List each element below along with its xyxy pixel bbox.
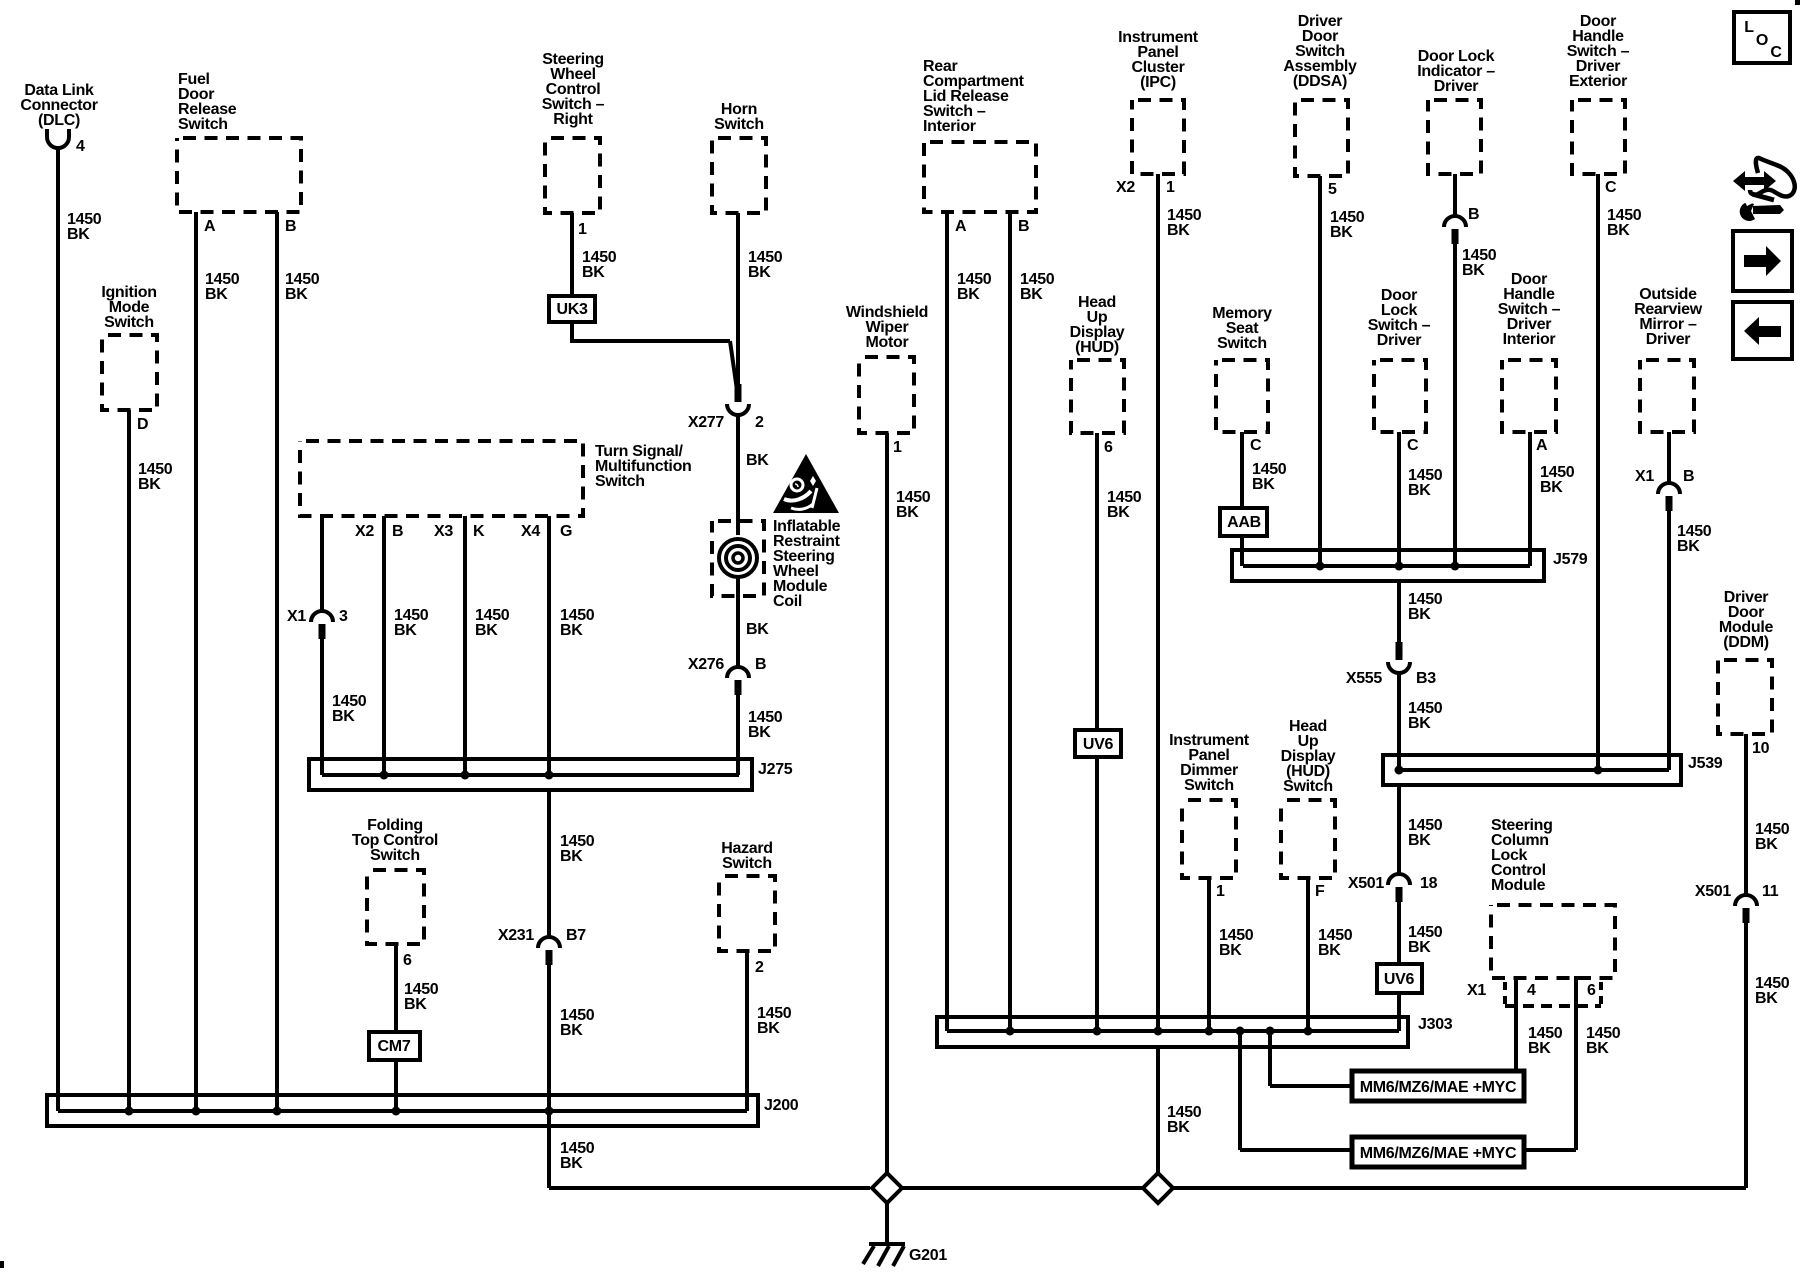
wire: 1450 BK from Folding Top Control Switch pin 6 to CM7 <box>396 944 439 1032</box>
icon: SIR caution triangle <box>773 454 839 513</box>
wire: 1450 BK from Horn Switch to connector X277 <box>738 213 783 386</box>
connector: X231 pin B7 <box>498 927 586 965</box>
svg-text:X1: X1 <box>287 608 306 625</box>
block: MM6/MZ6/MAE +MYC (upper) <box>1352 1071 1524 1101</box>
wire: ground rail between diamond junctions <box>903 1186 1142 1190</box>
svg-text:Interior: Interior <box>1503 331 1556 348</box>
wire: 1450 BK from Steering Wheel Control Switch pin 1 to UK3 <box>572 213 617 296</box>
svg-text:Driver: Driver <box>1434 78 1479 95</box>
svg-text:X277: X277 <box>688 414 725 431</box>
svg-text:J200: J200 <box>764 1097 799 1114</box>
svg-text:Right: Right <box>553 111 593 128</box>
connector: in-line pin B (Door Lock Indicator) <box>1444 206 1479 244</box>
connector: DLC pin 4 half-circle <box>47 129 85 155</box>
svg-text:BK: BK <box>332 708 355 725</box>
wire: from diamond junction down to ground G201 <box>885 1204 889 1244</box>
wire: 1450 BK from IPC connector X2 pin 1 to splice J303 <box>1116 174 1202 1031</box>
wire: 1450 BK from Windshield Wiper Motor pin 1 to ground junction <box>887 433 931 1172</box>
svg-text:6: 6 <box>403 952 412 969</box>
svg-text:X555: X555 <box>1346 670 1383 687</box>
svg-text:UK3: UK3 <box>556 301 588 318</box>
icon: service information arrows and wrench <box>1733 158 1795 221</box>
svg-text:B: B <box>1468 206 1479 223</box>
component: Folding Top Control Switch <box>352 817 438 944</box>
svg-text:MM6/MZ6/MAE +MYC: MM6/MZ6/MAE +MYC <box>1360 1079 1517 1096</box>
svg-text:Coil: Coil <box>773 593 802 610</box>
option code UK3 <box>549 296 595 322</box>
svg-text:BK: BK <box>1755 836 1778 853</box>
svg-text:BK: BK <box>1540 479 1563 496</box>
svg-text:K: K <box>473 523 485 540</box>
wire: 1450 BK from Turn Signal Switch X3 pin K to splice J275 <box>434 516 510 775</box>
component: Driver Door Module (DDM) <box>1718 589 1773 734</box>
svg-text:(DLC): (DLC) <box>38 112 80 129</box>
svg-text:BK: BK <box>1408 715 1431 732</box>
svg-text:AAB: AAB <box>1227 514 1261 531</box>
component: Instrument Panel Dimmer Switch <box>1169 732 1250 878</box>
svg-text:1: 1 <box>1166 179 1175 196</box>
wire: BK from coil to connector X276 <box>738 577 769 667</box>
wire: 1450 BK from DLC pin 4 to splice J200 <box>58 148 102 1111</box>
svg-text:4: 4 <box>1527 982 1536 999</box>
svg-text:G: G <box>560 523 572 540</box>
svg-text:C: C <box>1605 179 1617 196</box>
wire: 1450 BK from Ignition Mode Switch pin D to splice J200 <box>129 410 173 1111</box>
svg-text:O: O <box>1756 32 1768 49</box>
svg-text:BK: BK <box>205 286 228 303</box>
svg-text:X276: X276 <box>688 656 725 673</box>
connector: X1 pin B (mirror) <box>1635 468 1694 511</box>
svg-text:BK: BK <box>394 622 417 639</box>
wire: 1450 BK from Fuel Door Release Switch pin B to splice J200 <box>277 212 320 1111</box>
svg-text:Switch: Switch <box>370 847 420 864</box>
svg-text:B7: B7 <box>566 927 586 944</box>
svg-text:BK: BK <box>1408 939 1431 956</box>
svg-text:Switch: Switch <box>1217 335 1267 352</box>
component: Door Lock Switch - Driver <box>1368 287 1431 432</box>
svg-text:6: 6 <box>1104 439 1113 456</box>
connector: X555 pin B3 <box>1346 642 1436 687</box>
mark: page edge tick bottom left <box>0 1261 4 1268</box>
svg-text:J579: J579 <box>1553 551 1588 568</box>
svg-text:BK: BK <box>746 452 769 469</box>
svg-text:BK: BK <box>1252 476 1275 493</box>
svg-text:CM7: CM7 <box>378 1038 411 1055</box>
svg-text:(HUD): (HUD) <box>1075 339 1119 356</box>
wire: 1450 BK from splice J579 to connector X555 <box>1399 581 1443 644</box>
svg-text:4: 4 <box>76 138 85 155</box>
svg-text:C: C <box>1770 44 1782 61</box>
component: Rear Compartment Lid Release Switch - Interior <box>923 58 1036 212</box>
svg-text:BK: BK <box>1219 942 1242 959</box>
svg-text:BK: BK <box>560 622 583 639</box>
svg-text:BK: BK <box>1020 286 1043 303</box>
wire: from Door Lock Indicator to connector B <box>1453 174 1457 216</box>
svg-text:BK: BK <box>1107 504 1130 521</box>
svg-text:BK: BK <box>1607 222 1630 239</box>
wire: from UV6 to splice J303 <box>1397 993 1401 1031</box>
svg-text:X4: X4 <box>521 523 540 540</box>
svg-text:X501: X501 <box>1348 875 1385 892</box>
option code UV6 (HUD wire) <box>1075 730 1121 757</box>
svg-text:3: 3 <box>339 608 348 625</box>
splice pack J539 <box>1383 755 1723 785</box>
wire: 1450 BK from X1 pin 3 to splice J275 <box>322 639 367 775</box>
component: Driver Door Switch Assembly (DDSA) <box>1283 13 1357 176</box>
svg-text:Switch: Switch <box>1283 778 1333 795</box>
wire: 1450 BK from X501 pin 18 to UV6 <box>1399 902 1443 964</box>
component: Data Link Connector (DLC) <box>20 82 97 129</box>
svg-text:BK: BK <box>1408 482 1431 499</box>
svg-text:A: A <box>1536 437 1548 454</box>
wire: from Turn Signal Switch X1 pin 3 toward J275 (upper segment) <box>320 516 324 611</box>
svg-text:C: C <box>1407 437 1419 454</box>
component: Door Handle Switch - Driver Exterior <box>1567 13 1630 174</box>
wire: 1450 BK from HUD pin 6 to UV6 <box>1097 433 1142 730</box>
wire: 1450 BK from X276 to splice J275 <box>738 695 783 775</box>
svg-text:L: L <box>1744 19 1754 36</box>
junction: diamond splice at ground rail (right) <box>1143 1173 1173 1203</box>
component: Instrument Panel Cluster (IPC) <box>1118 29 1199 174</box>
svg-text:BK: BK <box>560 848 583 865</box>
svg-text:BK: BK <box>582 264 605 281</box>
svg-text:X3: X3 <box>434 523 453 540</box>
connector: X276 pin B <box>688 656 766 695</box>
wire: 1450 BK from Door Handle Switch Interior pin A to splice J579 <box>1530 432 1575 566</box>
wire: from splice J303 to MM6/MZ6/MAE +MYC block (upper) <box>1270 1031 1352 1086</box>
wire: 1450 BK from Steering Column Lock Control Module X1 pin 4 to MM6 block <box>1516 976 1563 1071</box>
component: Horn Switch <box>712 101 766 213</box>
svg-text:Module: Module <box>1491 877 1546 894</box>
svg-text:2: 2 <box>755 959 764 976</box>
svg-text:BK: BK <box>957 286 980 303</box>
svg-text:X1: X1 <box>1635 468 1654 485</box>
component: Turn Signal/Multifunction Switch <box>300 441 692 516</box>
svg-text:BK: BK <box>746 621 769 638</box>
svg-text:MM6/MZ6/MAE +MYC: MM6/MZ6/MAE +MYC <box>1360 1145 1517 1162</box>
component: Windshield Wiper Motor <box>846 304 928 433</box>
svg-text:BK: BK <box>1408 606 1431 623</box>
wire: from UK3 down, right and diagonal to connector X277 <box>570 322 737 390</box>
svg-text:11: 11 <box>1762 883 1779 900</box>
mark: page edge tick top right <box>1795 0 1800 5</box>
wire: 1450 BK from Hazard Switch pin 2 to splice J200 <box>747 951 792 1111</box>
option code AAB <box>1220 508 1267 536</box>
component: Steering Column Lock Control Module <box>1491 817 1615 978</box>
svg-text:(DDSA): (DDSA) <box>1293 73 1347 90</box>
wire: 1450 BK from Rear Compartment Lid Release Switch pin A to splice J303 <box>947 212 992 1031</box>
symbol: clockspring coil <box>715 535 761 581</box>
svg-text:BK: BK <box>1755 990 1778 1007</box>
junction: diamond splice at ground rail (left) <box>872 1173 902 1203</box>
icon: forward arrow box <box>1733 231 1792 291</box>
component: Outside Rearview Mirror - Driver <box>1634 286 1703 432</box>
component: Inflatable Restraint Steering Wheel Module Coil <box>712 518 841 610</box>
wire: from CM7 to splice J200 <box>394 1060 398 1111</box>
svg-text:6: 6 <box>1587 982 1596 999</box>
svg-text:1: 1 <box>893 439 902 456</box>
connector: X501 pin 11 <box>1695 883 1779 923</box>
svg-text:UV6: UV6 <box>1083 736 1114 753</box>
svg-text:D: D <box>137 416 148 433</box>
svg-text:10: 10 <box>1752 740 1770 757</box>
wire: 1450 BK from Fuel Door Release Switch pin A to splice J200 <box>196 212 240 1111</box>
svg-text:BK: BK <box>560 1155 583 1172</box>
svg-text:BK: BK <box>67 226 90 243</box>
svg-text:Interior: Interior <box>923 118 976 135</box>
svg-text:G201: G201 <box>909 1247 947 1264</box>
svg-text:B: B <box>755 656 766 673</box>
wire: 1450 BK from splice J303 to diamond junction (right) <box>1158 1047 1202 1172</box>
ground G201 <box>863 1244 947 1266</box>
svg-text:BK: BK <box>560 1022 583 1039</box>
icon: LOC legend box <box>1734 12 1790 63</box>
connector row X1 of Steering Column Lock Control Module <box>1467 982 1601 1006</box>
component: Door Lock Indicator - Driver <box>1417 48 1495 174</box>
block: MM6/MZ6/MAE +MYC (lower) <box>1352 1137 1524 1167</box>
wire: from Outside Rearview Mirror to connector X1 pin B <box>1667 432 1671 483</box>
svg-text:A: A <box>955 218 967 235</box>
component: Steering Wheel Control Switch - Right <box>542 51 605 213</box>
svg-text:X501: X501 <box>1695 883 1732 900</box>
svg-text:1: 1 <box>578 221 587 238</box>
wire: 1450 BK from X1 pin B to splice J539 <box>1669 511 1712 770</box>
svg-text:BK: BK <box>1462 262 1485 279</box>
svg-text:B: B <box>392 523 403 540</box>
svg-text:BK: BK <box>1528 1040 1551 1057</box>
svg-text:BK: BK <box>748 724 771 741</box>
svg-text:A: A <box>204 218 216 235</box>
option code CM7 <box>369 1032 420 1060</box>
connector: X277 pin 2 <box>688 384 764 431</box>
wire: 1450 BK from Instrument Panel Dimmer Switch pin 1 to splice J303 <box>1209 878 1254 1031</box>
svg-text:BK: BK <box>1318 942 1341 959</box>
svg-text:(DDM): (DDM) <box>1723 634 1769 651</box>
svg-text:Driver: Driver <box>1377 332 1422 349</box>
component: Hazard Switch <box>719 840 775 951</box>
wire: 1450 BK from Steering Column Lock Control Module X1 pin 6 to MM6 block <box>1524 976 1621 1150</box>
svg-text:BK: BK <box>1408 832 1431 849</box>
svg-text:BK: BK <box>896 504 919 521</box>
svg-text:B3: B3 <box>1416 670 1436 687</box>
component: Head Up Display (HUD) <box>1070 294 1125 433</box>
svg-text:X1: X1 <box>1467 982 1486 999</box>
svg-text:Switch: Switch <box>178 116 228 133</box>
svg-text:B: B <box>1018 218 1029 235</box>
wire: from splice J303 to MM6/MZ6/MAE +MYC block (lower) <box>1240 1031 1352 1150</box>
svg-text:(IPC): (IPC) <box>1140 74 1176 91</box>
wire: 1450 BK from Rear Compartment Lid Release Switch pin B to splice J303 <box>1010 212 1055 1031</box>
svg-text:BK: BK <box>1330 224 1353 241</box>
wire: ground rail from X231 branch to junction at G201 <box>549 1186 870 1190</box>
svg-text:J303: J303 <box>1418 1016 1453 1033</box>
svg-text:5: 5 <box>1328 181 1337 198</box>
wire: 1450 BK from splice J539 to connector X501 pin 18 <box>1399 785 1443 874</box>
svg-text:F: F <box>1315 883 1325 900</box>
component: Fuel Door Release Switch <box>177 71 301 212</box>
svg-text:BK: BK <box>404 996 427 1013</box>
wire: 1450 BK from Door Lock Switch pin C to splice J579 <box>1399 432 1443 566</box>
wire: 1450 BK from DDSA pin 5 to splice J579 <box>1320 176 1365 566</box>
wire: 1450 BK from X501 pin 11 to ground rail <box>1746 923 1790 1188</box>
wire: 1450 BK from Memory Seat Switch pin C to AAB <box>1242 432 1287 508</box>
splice pack J275 <box>309 759 793 790</box>
component: Head Up Display (HUD) Switch <box>1281 718 1336 878</box>
splice pack J579 <box>1232 550 1588 581</box>
svg-text:Driver: Driver <box>1646 331 1691 348</box>
svg-text:BK: BK <box>1167 222 1190 239</box>
svg-text:BK: BK <box>757 1020 780 1037</box>
connector: X1 pin 3 <box>287 608 348 639</box>
svg-text:Switch: Switch <box>1184 777 1234 794</box>
component: Ignition Mode Switch <box>101 284 157 410</box>
svg-text:BK: BK <box>138 476 161 493</box>
svg-text:Exterior: Exterior <box>1569 73 1627 90</box>
svg-text:Motor: Motor <box>866 334 909 351</box>
wire: from AAB to splice J579 <box>1240 536 1244 566</box>
svg-text:UV6: UV6 <box>1384 971 1415 988</box>
svg-text:1: 1 <box>1216 883 1225 900</box>
svg-text:J275: J275 <box>758 761 793 778</box>
svg-text:J539: J539 <box>1688 755 1723 772</box>
wire: BK from X277 to Inflatable Restraint Steering Wheel Module Coil <box>738 413 769 541</box>
wire: from UV6 to splice J303 <box>1095 757 1099 1031</box>
svg-text:BK: BK <box>1677 538 1700 555</box>
component: Memory Seat Switch <box>1212 305 1272 432</box>
svg-text:BK: BK <box>475 622 498 639</box>
svg-text:18: 18 <box>1420 875 1438 892</box>
svg-text:BK: BK <box>1586 1040 1609 1057</box>
svg-text:BK: BK <box>748 264 771 281</box>
svg-text:Switch: Switch <box>595 473 645 490</box>
wire: 1450 BK from X231 through splice J200 to ground rail <box>549 965 595 1188</box>
option code UV6 (steering column) <box>1377 964 1422 993</box>
splice pack J303 <box>937 1016 1453 1047</box>
svg-text:BK: BK <box>1167 1119 1190 1136</box>
svg-text:X2: X2 <box>1116 179 1135 196</box>
svg-text:Switch: Switch <box>722 855 772 872</box>
svg-text:B: B <box>1683 468 1694 485</box>
wire: 1450 BK from Turn Signal Switch X2 pin B to splice J275 <box>355 516 429 775</box>
connector: X501 pin 18 <box>1348 874 1438 902</box>
svg-text:Switch: Switch <box>104 314 154 331</box>
wire: ground rail from right diamond to DDM branch <box>1174 1186 1746 1190</box>
component: Door Handle Switch - Driver Interior <box>1498 271 1561 432</box>
wire: 1450 BK from Turn Signal Switch X4 pin G to splice J275 <box>521 516 595 775</box>
svg-text:2: 2 <box>755 414 764 431</box>
wire: 1450 BK from connector B to splice J579 <box>1455 244 1497 566</box>
svg-text:C: C <box>1250 437 1262 454</box>
svg-text:X231: X231 <box>498 927 535 944</box>
svg-text:BK: BK <box>285 286 308 303</box>
wire: 1450 BK from DDM pin 10 to connector X501 pin 11 <box>1746 734 1790 895</box>
icon: back arrow box <box>1733 302 1792 359</box>
svg-text:B: B <box>285 218 296 235</box>
wire: 1450 BK from HUD Switch pin F to splice J303 <box>1308 878 1353 1031</box>
wire: 1450 BK from X555 to splice J539 <box>1399 673 1443 770</box>
wire: 1450 BK from Door Handle Switch Exterior pin C to splice J539 <box>1598 174 1642 770</box>
splice pack J200 <box>47 1095 799 1126</box>
svg-text:Switch: Switch <box>714 116 764 133</box>
svg-text:X2: X2 <box>355 523 374 540</box>
wire: 1450 BK from splice J275 to connector X231 (upper segment) <box>549 790 595 937</box>
